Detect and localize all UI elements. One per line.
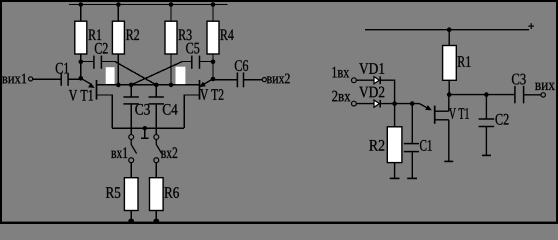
wire input 1 to R5 [130, 163, 132, 178]
wire emitter bus [112, 127, 184, 129]
terminal output 2 [262, 78, 266, 82]
label vyh1 [2, 74, 26, 84]
terminal input 1 right [352, 78, 357, 83]
diode VD1 [374, 76, 380, 84]
wire emitter down right [448, 120, 450, 161]
wire C1 to VT1 node [68, 78, 81, 80]
capacitor C1 right [404, 144, 419, 152]
wire C5 left [182, 61, 192, 63]
resistor R4 [207, 21, 219, 54]
wire C3 to output terminal [524, 94, 541, 96]
white mask rectangle left [106, 67, 115, 84]
ground of emitter bus [141, 128, 149, 138]
wire VT2 node to C6 [213, 79, 237, 81]
label R1 [89, 29, 102, 40]
wire collector vertical [448, 95, 450, 112]
wire R1 top lead right [448, 30, 450, 46]
label C2 [95, 43, 108, 54]
label R3 [178, 29, 191, 40]
junction dots right circuit [392, 27, 488, 105]
wire R2 top lead [394, 104, 396, 127]
wire VT1 emitter lead down [97, 95, 113, 128]
wire C4 top lead [155, 85, 157, 97]
switch SA2 input 2 [154, 135, 162, 163]
wire switch SA1 stub [130, 128, 132, 134]
resistor R1 right [443, 46, 457, 81]
capacitor C3 [123, 97, 138, 104]
label R2 [126, 29, 139, 40]
wire cross-coupling diagonal C3 node to C5 [131, 62, 182, 85]
wire node R1-C2 down to C1 node [80, 62, 82, 79]
wire R2 top lead [117, 5, 119, 22]
wire R5 bottom lead [130, 211, 132, 222]
capacitor C6 [237, 72, 243, 87]
capacitor C1 [61, 73, 68, 85]
wire switch SA2 stub [155, 128, 157, 134]
label VD1 [359, 63, 384, 74]
wire R1 top lead [80, 5, 82, 22]
capacitor C4 [149, 97, 164, 104]
label C3 [135, 104, 150, 115]
label C5 [186, 43, 199, 54]
label C4 [163, 104, 178, 115]
label VT1 right [449, 108, 469, 119]
label R1 right [458, 56, 471, 67]
wire C2 right [101, 61, 115, 63]
wire node R4-C5 down to C6 node [212, 62, 214, 79]
wire VT2 emitter lead down [184, 95, 199, 128]
wire R2 bottom lead [394, 163, 396, 179]
capacitor C2 [94, 56, 102, 69]
label 2vh [332, 91, 350, 102]
transistor VT2 [200, 79, 214, 100]
wire cross-coupling diagonal C2 to C4 node [115, 62, 156, 85]
ground R2 right [390, 177, 400, 179]
capacitor C3 right [515, 86, 524, 103]
wire C1 top lead [411, 104, 413, 144]
wire input 2 to R6 [155, 163, 157, 178]
label C1 [56, 63, 69, 74]
wire R3 bottom lead [170, 54, 172, 85]
ground C2 right [482, 154, 491, 156]
wire C2 top lead [485, 95, 487, 119]
label R4 [220, 30, 234, 41]
terminal output 1 [29, 77, 33, 81]
label VD2 [359, 87, 384, 98]
label vyh right [535, 83, 555, 90]
wire C2 left [81, 61, 94, 63]
terminal output right [541, 93, 545, 97]
ground emitter right [444, 160, 453, 162]
wire R4 top lead [212, 5, 214, 22]
capacitor C5 [192, 56, 200, 69]
label R2 right [369, 140, 384, 151]
switch SA1 input 1 [129, 135, 137, 163]
label C2 right [496, 114, 509, 125]
label 1vh [332, 67, 349, 78]
wire R1 bottom to collector [448, 80, 450, 94]
label VT2 [200, 89, 223, 100]
wire collector node to C3 [449, 94, 515, 96]
wire R1 bottom lead [80, 54, 82, 78]
wire C2 bottom lead [485, 127, 487, 156]
label VT1 left [69, 90, 93, 101]
wire collector bus between VT1 and VT2 [97, 84, 200, 86]
resistor R1 [75, 21, 87, 54]
diode VD2 [374, 100, 380, 108]
label R5 [106, 187, 120, 198]
transistor VT1 right [420, 104, 449, 124]
plus sign of supply [528, 23, 534, 29]
ground C1 right [407, 177, 417, 179]
junction dots left circuit [79, 2, 216, 223]
wire C5 right [200, 61, 214, 63]
label vyh2 [267, 74, 290, 84]
resistor R3 [165, 21, 177, 54]
wire VD1 to corner down [380, 80, 394, 103]
wire R4 bottom lead [212, 54, 214, 79]
wire R3 top lead [170, 5, 172, 22]
label C1 right [420, 140, 432, 151]
transistor VT1 [81, 78, 97, 99]
left positive supply rail [69, 4, 228, 6]
wire R2 bottom lead [117, 54, 119, 85]
label C3 right [512, 74, 526, 85]
resistor R2 right [387, 127, 402, 163]
wire C6 to output 2 terminal [244, 79, 263, 81]
white mask rectangle right [176, 67, 186, 84]
wire input 1 to VD1 [357, 79, 375, 81]
label vh1 [111, 147, 127, 158]
label vh2 [161, 147, 177, 158]
wire R6 bottom lead [155, 211, 157, 222]
wire input 2 to VD2 [357, 103, 375, 105]
wire C3 bottom lead [130, 104, 132, 128]
right positive supply rail [365, 29, 529, 31]
terminal input 2 right [352, 101, 357, 106]
wire C4 bottom lead [155, 104, 157, 128]
wire VD2 to base [380, 103, 419, 105]
wire C1 bottom lead [411, 152, 413, 179]
label C6 [235, 60, 248, 71]
resistor R6 [150, 178, 164, 211]
resistor R2 [112, 21, 124, 54]
right circuit [357, 30, 542, 179]
capacitor C2 right [479, 119, 495, 127]
label R6 [164, 187, 179, 198]
wire C3 top lead [130, 85, 132, 97]
resistor R5 [124, 178, 138, 211]
wire output 1 terminal to C1 [33, 78, 61, 80]
